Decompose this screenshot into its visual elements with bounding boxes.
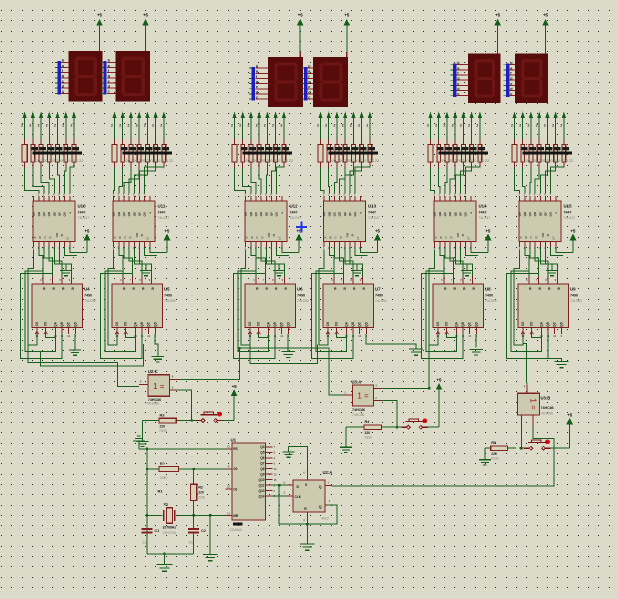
wire [382, 345, 430, 388]
svg-text:QE: QE [538, 212, 542, 216]
svg-text:QB: QB [37, 212, 41, 216]
svg-text:7447: 7447 [290, 211, 298, 215]
svg-text:2: 2 [111, 124, 113, 128]
wire [337, 334, 347, 337]
terminal arrow net 5-4 [546, 112, 549, 117]
wire [143, 420, 197, 422]
svg-text:D: D [297, 485, 300, 489]
svg-text:2: 2 [527, 124, 529, 128]
svg-text:+5: +5 [97, 13, 103, 18]
push button SW1 [196, 420, 201, 422]
wire [328, 117, 330, 139]
junction [396, 426, 398, 428]
wire [429, 250, 438, 346]
terminal arrow net 0-4 [56, 112, 59, 117]
wire [139, 448, 226, 450]
wire [180, 348, 240, 379]
svg-text:QF: QF [348, 212, 352, 216]
svg-text:2: 2 [476, 124, 478, 128]
wire [526, 382, 529, 385]
junction [278, 484, 280, 486]
junction [192, 468, 194, 470]
resistor R22 [138, 139, 140, 145]
svg-text:74HC86: 74HC86 [541, 406, 554, 410]
pin 6 of U3:B [532, 415, 534, 426]
7-seg display DS4 [313, 57, 348, 107]
svg-text:U9: U9 [570, 287, 576, 292]
svg-text:c: c [457, 92, 459, 96]
resistor R51 [546, 139, 548, 145]
resistor R36 [344, 139, 346, 145]
junction [190, 419, 192, 421]
svg-text:QE: QE [52, 212, 56, 216]
wire [271, 247, 279, 264]
svg-text:U2:C: U2:C [148, 369, 158, 374]
wire [355, 167, 370, 193]
wire [355, 247, 367, 255]
resistor R16 [57, 139, 59, 145]
svg-text:QD: QD [47, 212, 51, 216]
svg-text:R3: R3 [160, 414, 165, 418]
resistor R15 [48, 139, 50, 145]
svg-text:CK: CK [436, 321, 440, 326]
wire [450, 168, 455, 194]
wire [555, 117, 557, 139]
terminal arrow net 3-2 [335, 112, 338, 117]
wire [430, 117, 432, 139]
resistor R29 [258, 139, 260, 145]
wire [145, 167, 164, 193]
pin Q of U2:A [325, 484, 331, 486]
svg-text:LT: LT [278, 236, 282, 239]
decoder IC U12 (74LS47) [244, 196, 302, 250]
junction [192, 514, 194, 516]
svg-text:74LS47: 74LS47 [479, 216, 491, 220]
junction [146, 448, 148, 450]
svg-text:R220: R220 [491, 457, 499, 461]
svg-text:32768Hz: 32768Hz [163, 525, 177, 529]
svg-text:U6: U6 [297, 287, 303, 292]
wire [223, 420, 235, 422]
svg-text:QA: QA [540, 321, 544, 326]
power pin of DS6 [545, 49, 547, 54]
7-seg display DS6 [515, 54, 548, 104]
svg-text:U10: U10 [78, 204, 87, 209]
wire [74, 334, 76, 350]
capacitor C1 22p [146, 515, 148, 528]
terminal arrow net 2-2 [249, 112, 252, 117]
wire [21, 274, 63, 359]
svg-text:10M: 10M [160, 476, 167, 480]
svg-text:2: 2 [29, 124, 31, 128]
svg-text:QF: QF [270, 212, 274, 216]
wire [455, 247, 472, 277]
svg-text:QC: QC [280, 321, 284, 326]
svg-text:CK: CK [44, 321, 48, 326]
wire [439, 168, 440, 194]
svg-text:7447: 7447 [368, 211, 376, 215]
ground [142, 421, 144, 442]
terminal arrow net 3-5 [360, 112, 363, 117]
crystal X1 32768Hz [163, 503, 178, 535]
svg-text:QB: QB [327, 212, 331, 216]
svg-text:QD: QD [448, 212, 452, 216]
resistor R18 [73, 139, 75, 145]
svg-text:LT: LT [356, 236, 360, 239]
svg-text:220k: 220k [198, 495, 205, 499]
svg-text:1 =: 1 = [529, 398, 538, 410]
resistor value labels [439, 152, 489, 155]
svg-text:2: 2 [552, 124, 554, 128]
svg-text:2: 2 [144, 124, 146, 128]
svg-text:A: A [435, 236, 437, 240]
resistor value labels [523, 152, 573, 155]
wire [530, 247, 538, 277]
svg-text:QG: QG [275, 211, 279, 216]
svg-text:7490: 7490 [297, 294, 305, 298]
svg-text:U13: U13 [368, 204, 377, 209]
svg-text:2: 2 [247, 124, 249, 128]
svg-text:220 220 220 220 220 220 22: 220 220 220 220 220 220 22 [440, 158, 490, 163]
wire [551, 167, 564, 193]
wire [272, 495, 286, 497]
svg-text:RBI: RBI [541, 232, 545, 237]
resistor R25 [163, 139, 165, 145]
resistor R32 [283, 139, 285, 145]
pin 1 of U3:A [344, 394, 353, 396]
svg-text:R5: R5 [491, 441, 496, 445]
wire [70, 167, 74, 193]
resistor bank 4 (7 segment resistors) [427, 112, 489, 196]
svg-text:QD: QD [474, 321, 478, 326]
resistor R34 [328, 139, 330, 145]
wire [345, 247, 363, 277]
resistor R23 [146, 139, 148, 145]
svg-text:CRYSTAL: CRYSTAL [163, 531, 178, 535]
resistor value labels [243, 152, 293, 155]
power pin of DS5 [497, 49, 499, 54]
svg-text:B: B [251, 236, 253, 240]
wire [139, 168, 155, 194]
svg-text:2: 2 [366, 124, 368, 128]
wire [551, 247, 563, 255]
svg-text:QA: QA [345, 321, 349, 326]
junction [146, 514, 148, 516]
svg-text:74HC86: 74HC86 [147, 402, 160, 406]
svg-text:O0: O0 [233, 467, 237, 471]
wire [545, 168, 555, 194]
wire [530, 117, 532, 139]
power pin of DS4 [346, 52, 348, 57]
counter IC U4 (74LS90) [32, 277, 96, 338]
resistor R52 [555, 139, 557, 145]
svg-text:e: e [457, 82, 459, 86]
wire [243, 168, 251, 194]
wire [163, 117, 165, 139]
wire [259, 168, 261, 194]
svg-text:QG: QG [143, 211, 147, 216]
resistor R40 [430, 139, 432, 145]
decoder IC U14 (74LS47) [433, 196, 491, 250]
svg-text:BI: BI [60, 233, 64, 236]
svg-text:QD: QD [364, 321, 368, 326]
resistor R35 [336, 139, 338, 145]
wire [241, 250, 250, 346]
svg-text:2: 2 [452, 124, 454, 128]
power pin of DS3 [299, 52, 301, 57]
terminal arrow net 1-6 [162, 112, 165, 117]
IC U1 (CD4060) [225, 438, 277, 532]
svg-text:+5: +5 [543, 13, 549, 18]
svg-text:c: c [62, 90, 64, 94]
pin 3 of U3:A [374, 387, 382, 389]
decoder IC U10 (74LS47) [32, 196, 90, 250]
svg-text:BI: BI [461, 233, 465, 236]
pin 4 of U3:B [526, 384, 528, 393]
svg-text:74HC86: 74HC86 [352, 408, 365, 412]
svg-text:CK: CK [530, 321, 534, 326]
svg-text:QC: QC [553, 321, 557, 326]
svg-text:2: 2 [560, 124, 562, 128]
wire [124, 247, 132, 277]
wire [28, 250, 37, 346]
svg-text:RBI: RBI [456, 232, 460, 237]
terminal arrow net 1-5 [154, 112, 157, 117]
pin D of U2:A [287, 484, 294, 486]
svg-text:2: 2 [333, 124, 335, 128]
svg-text:7490: 7490 [570, 294, 578, 298]
svg-text:220 220 220 220 220 220 22: 220 220 220 220 220 220 22 [124, 158, 174, 163]
pin Qbar of U2:A [325, 504, 327, 506]
wire [277, 247, 289, 255]
svg-text:B: B [525, 236, 527, 240]
wire [312, 274, 354, 359]
svg-text:2: 2 [256, 124, 258, 128]
svg-text:U7: U7 [375, 287, 381, 292]
cursor cross [296, 222, 307, 233]
wire [44, 247, 52, 277]
svg-text:CD4060: CD4060 [230, 528, 243, 532]
wire [113, 168, 116, 194]
svg-text:220 220 220 220 220 220 22: 220 220 220 220 220 220 22 [330, 158, 380, 163]
wire [328, 168, 331, 194]
connector strip of DS1 [55, 59, 68, 95]
resistor R53 [563, 139, 565, 145]
svg-text:74LS90: 74LS90 [485, 299, 497, 303]
resistor R46 [479, 139, 481, 145]
svg-text:QA: QA [455, 321, 459, 326]
wire [25, 271, 56, 352]
svg-text:A: A [520, 236, 522, 240]
resistor R48 [522, 139, 524, 145]
resistor R20 [122, 139, 124, 145]
wire [235, 168, 246, 194]
counter IC U5 (74LS90) [112, 277, 176, 338]
ground [356, 264, 358, 271]
counter IC U9 (74LS90) [518, 277, 582, 338]
svg-text:QB: QB [351, 321, 355, 326]
resistor R13 [32, 139, 34, 145]
wire [65, 117, 67, 139]
wire [24, 117, 26, 139]
wire [73, 117, 75, 139]
ground [551, 264, 553, 271]
svg-text:R220: R220 [160, 429, 168, 433]
terminal arrow net 0-6 [72, 112, 75, 117]
XOR gate U2:C (74HC86) [148, 375, 170, 397]
ground [345, 427, 347, 447]
wire [134, 168, 147, 194]
wire [49, 168, 54, 194]
wire [46, 334, 56, 337]
svg-text:QC: QC [67, 321, 71, 326]
wire [193, 469, 195, 484]
wire [275, 117, 277, 139]
power pin of DS2 [145, 46, 147, 51]
wire [134, 247, 151, 277]
svg-text:Q13: Q13 [258, 489, 264, 493]
wire [428, 426, 439, 428]
wire [59, 247, 66, 264]
wire [540, 247, 557, 277]
terminal arrow net 5-1 [521, 112, 524, 117]
svg-text:X1: X1 [164, 503, 169, 507]
wire [70, 247, 87, 252]
wire [460, 168, 471, 194]
wire [538, 117, 540, 139]
svg-text:2: 2 [46, 124, 48, 128]
svg-text:74LS90: 74LS90 [297, 299, 309, 303]
ground [484, 448, 486, 460]
wire [546, 117, 548, 139]
svg-text:2: 2 [160, 124, 162, 128]
svg-text:220 220 220 220 220 220 22: 220 220 220 220 220 220 22 [34, 158, 84, 163]
wire [155, 334, 158, 356]
svg-text:7490: 7490 [164, 294, 172, 298]
7-seg display DS1 [68, 51, 102, 101]
svg-text:R2: R2 [198, 486, 203, 490]
svg-text:22p: 22p [189, 541, 195, 545]
svg-text:74LS47: 74LS47 [564, 216, 576, 220]
7-seg display DS5 [468, 54, 501, 104]
wire [563, 117, 565, 139]
wire [177, 390, 191, 420]
svg-text:c: c [308, 96, 310, 100]
wire [250, 117, 252, 139]
wire [209, 515, 211, 554]
wire [530, 168, 531, 194]
wire [319, 250, 328, 346]
svg-text:QB: QB [249, 212, 253, 216]
wire [119, 168, 123, 194]
svg-text:2: 2 [427, 124, 429, 128]
wire [266, 117, 268, 139]
svg-text:2: 2 [435, 124, 437, 128]
svg-text:2: 2 [544, 124, 546, 128]
svg-text:QD: QD [286, 321, 290, 326]
resistor R5 220 [491, 446, 508, 451]
ground [203, 555, 217, 561]
connector strip of DS6 [503, 61, 514, 97]
ground [466, 264, 468, 271]
ground s1 below counter [69, 350, 81, 355]
wire [272, 484, 286, 486]
wire [48, 117, 50, 139]
svg-text:QF: QF [459, 212, 463, 216]
svg-text:LT: LT [552, 236, 556, 239]
wire [548, 358, 561, 361]
svg-text:QC: QC [147, 321, 151, 326]
wire [515, 168, 520, 194]
terminal arrow net 2-5 [274, 112, 277, 117]
decoder IC U13 (74LS47) [322, 196, 380, 250]
svg-text:7447: 7447 [479, 211, 487, 215]
svg-text:+5: +5 [344, 13, 350, 18]
junction [238, 347, 240, 349]
svg-text:A: A [246, 236, 248, 240]
svg-text:QD: QD [127, 212, 131, 216]
pin R of U2:A [306, 512, 308, 524]
svg-text:BI: BI [140, 233, 144, 236]
wire [282, 247, 299, 252]
terminal arrow net 2-4 [266, 112, 269, 117]
ground bottom of oscillator [163, 553, 165, 555]
wire [360, 247, 377, 252]
svg-text:1 =: 1 = [153, 382, 165, 391]
wire [522, 117, 524, 139]
wire [462, 117, 464, 139]
svg-text:QA: QA [54, 321, 58, 326]
svg-text:B: B [39, 236, 41, 240]
resistor R26 [234, 139, 236, 145]
svg-text:2: 2 [519, 124, 521, 128]
svg-text:e: e [62, 79, 64, 83]
svg-text:QD: QD [533, 212, 537, 216]
terminal arrow net 3-0 [319, 112, 322, 117]
svg-text:2: 2 [460, 124, 462, 128]
svg-text:U15: U15 [564, 204, 573, 209]
wire [271, 168, 275, 194]
resistor R19 [114, 139, 116, 145]
terminal arrow net 2-1 [241, 112, 244, 117]
wire [258, 117, 260, 139]
terminal arrow net 2-3 [257, 112, 260, 117]
ground s2 below counter [152, 357, 165, 362]
wire [440, 247, 444, 277]
svg-text:Q5: Q5 [260, 451, 264, 455]
XOR gate U3:A (74HC86) [353, 385, 374, 406]
svg-text:2: 2 [38, 124, 40, 128]
wire [33, 168, 44, 194]
wire [139, 247, 146, 264]
svg-text:U3:B: U3:B [541, 396, 551, 401]
svg-text:CK: CK [115, 321, 119, 326]
svg-text:BI: BI [351, 233, 355, 236]
resistor R4 220 [364, 425, 382, 430]
svg-text:U2:A: U2:A [323, 470, 333, 475]
wire [279, 485, 307, 524]
svg-text:2: 2 [443, 124, 445, 128]
wire [479, 117, 481, 139]
terminal arrow net 5-2 [529, 112, 532, 117]
svg-text:7447: 7447 [158, 211, 166, 215]
resistor R47 [514, 139, 516, 145]
resistor R24 [155, 139, 157, 145]
resistor R2 (220k) [190, 484, 196, 500]
resistor R12 [24, 139, 26, 145]
wire [334, 247, 343, 277]
svg-text:QB: QB [438, 212, 442, 216]
